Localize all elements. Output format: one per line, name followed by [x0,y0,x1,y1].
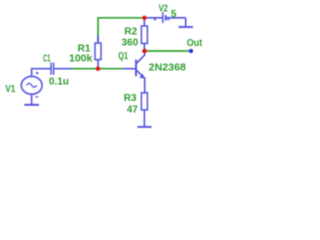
svg-text:47: 47 [127,104,139,115]
svg-text:Out: Out [187,38,203,49]
svg-text:C1: C1 [43,54,51,65]
svg-text:V1: V1 [5,84,16,95]
svg-text:5: 5 [171,9,177,20]
svg-text:R3: R3 [124,93,137,104]
svg-text:360: 360 [122,37,139,48]
svg-text:Q1: Q1 [118,51,128,62]
svg-text:V2: V2 [159,3,169,14]
svg-text:0.1u: 0.1u [49,76,69,87]
svg-text:2N2368: 2N2368 [149,62,187,73]
svg-text:100k: 100k [69,54,93,65]
svg-text:R2: R2 [124,27,137,38]
